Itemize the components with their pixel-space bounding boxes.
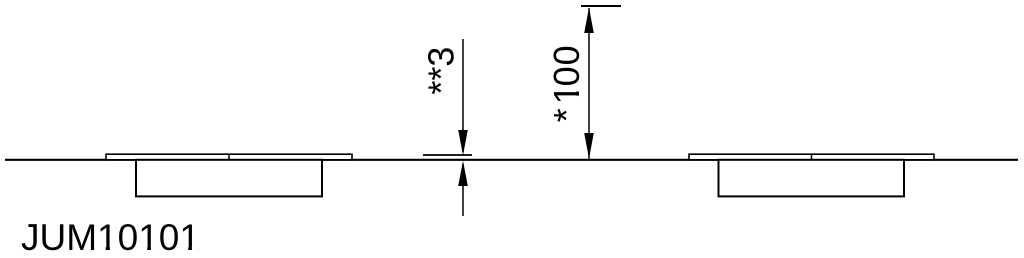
svg-text:*100: *100 xyxy=(546,44,587,122)
dimension 100 top arrowhead xyxy=(584,8,594,34)
mat surface line xyxy=(423,154,472,156)
svg-text:**3: **3 xyxy=(420,47,461,95)
dimension 3 lower leader line xyxy=(462,164,464,216)
left plate joint tick xyxy=(228,155,230,160)
dimension 100 extension tick xyxy=(581,5,621,7)
dimension 3 lower arrowhead xyxy=(458,161,468,186)
right buried box xyxy=(719,160,905,197)
right plate joint tick xyxy=(811,155,813,160)
dimension 3 upper arrowhead xyxy=(458,130,468,155)
left buried box xyxy=(136,160,322,197)
dimension 3 upper leader line xyxy=(462,39,464,152)
dimension 100 bottom arrowhead xyxy=(584,133,594,159)
dimension 100 line xyxy=(588,8,590,159)
svg-text:JUM10101: JUM10101 xyxy=(21,217,200,258)
left frame plate xyxy=(106,154,352,160)
ground line xyxy=(5,159,1018,161)
serif-foot erasers for digit 1 glyphs xyxy=(99,86,580,252)
right frame plate xyxy=(689,154,934,160)
